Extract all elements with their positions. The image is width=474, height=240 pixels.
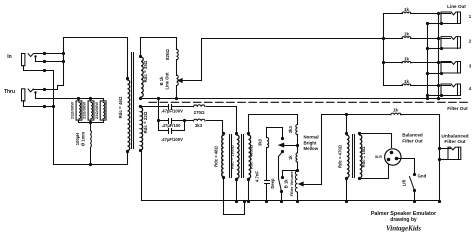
svg-text:Filter Out: Filter Out	[402, 139, 423, 144]
svg-text:22Ω/30W: 22Ω/30W	[70, 102, 75, 119]
svg-text:Lift: Lift	[401, 179, 406, 186]
svg-text:Line Out: Line Out	[165, 72, 170, 90]
svg-text:1k: 1k	[404, 79, 409, 84]
svg-text:Ø 1mm: Ø 1mm	[81, 132, 86, 146]
svg-text:.47µF/100V: .47µF/100V	[161, 109, 183, 114]
svg-text:XLR: XLR	[375, 155, 383, 159]
svg-text:B 1k: B 1k	[284, 179, 289, 189]
svg-text:Unbalanced: Unbalanced	[441, 134, 468, 140]
svg-text:Gnd: Gnd	[418, 174, 427, 179]
svg-text:22Ω/30W: 22Ω/30W	[94, 102, 99, 119]
svg-text:Thru: Thru	[4, 89, 15, 95]
svg-text:Bright: Bright	[304, 140, 317, 145]
svg-text:1k: 1k	[404, 32, 409, 37]
svg-text:.47µF/100: .47µF/100	[162, 123, 182, 128]
svg-text:drawing by: drawing by	[390, 217, 417, 223]
svg-text:B 1k: B 1k	[159, 76, 164, 86]
svg-text:3k3: 3k3	[258, 138, 263, 146]
svg-text:Rdc = 1100Ω: Rdc = 1100Ω	[230, 144, 235, 169]
svg-text:3k3: 3k3	[195, 123, 203, 128]
svg-text:Rdc = 46Ω: Rdc = 46Ω	[118, 96, 123, 118]
svg-text:Filter Out: Filter Out	[444, 139, 466, 145]
svg-text:1k: 1k	[393, 108, 398, 113]
svg-text:Rdc = 4800Ω: Rdc = 4800Ω	[249, 144, 254, 169]
svg-text:Filter Out: Filter Out	[447, 106, 468, 111]
svg-text:3k3: 3k3	[288, 126, 293, 134]
svg-text:Rdc = 470Ω: Rdc = 470Ω	[338, 144, 343, 168]
svg-text:1k: 1k	[404, 7, 409, 12]
svg-text:1k: 1k	[288, 155, 293, 160]
svg-text:Filter Volume: Filter Volume	[289, 171, 294, 197]
svg-text:In: In	[7, 54, 11, 60]
svg-text:Mellow: Mellow	[304, 146, 319, 151]
svg-text:Rdc = 35Ω: Rdc = 35Ω	[143, 60, 148, 82]
svg-text:Line Out: Line Out	[447, 4, 466, 9]
svg-text:100µH: 100µH	[75, 133, 80, 145]
svg-text:Rdc = 22Ω: Rdc = 22Ω	[143, 111, 148, 133]
svg-text:Normal: Normal	[304, 135, 319, 140]
svg-text:4.7nF: 4.7nF	[255, 171, 260, 182]
svg-text:Balanced: Balanced	[402, 133, 423, 138]
svg-text:.47µF/100V: .47µF/100V	[161, 137, 183, 142]
svg-text:270Ω: 270Ω	[194, 110, 205, 115]
svg-text:22Ω/30W: 22Ω/30W	[82, 102, 87, 119]
svg-text:820Ω: 820Ω	[165, 49, 170, 60]
svg-text:Deep: Deep	[270, 178, 275, 189]
svg-text:1k: 1k	[404, 57, 409, 62]
svg-text:Rdc = 15Ω: Rdc = 15Ω	[361, 146, 366, 167]
svg-text:VintageKids: VintageKids	[386, 224, 421, 232]
svg-text:Rdc = 48Ω: Rdc = 48Ω	[214, 146, 219, 167]
